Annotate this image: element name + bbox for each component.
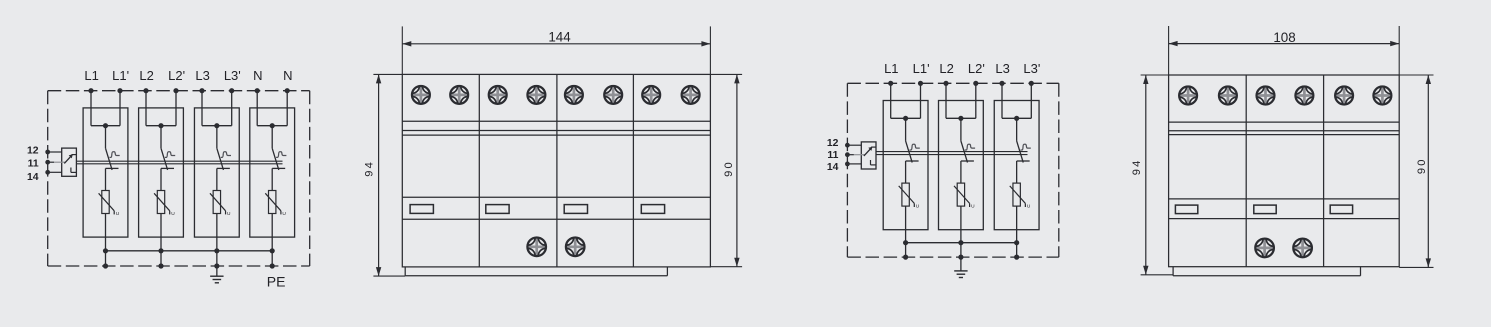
svg-text:L3: L3 <box>995 61 1009 76</box>
svg-text:11: 11 <box>28 158 39 169</box>
svg-text:108: 108 <box>1273 30 1295 45</box>
svg-text:4: 4 <box>364 162 376 168</box>
svg-text:9: 9 <box>723 171 735 177</box>
svg-text:L2: L2 <box>939 61 953 76</box>
svg-text:L3': L3' <box>224 68 241 83</box>
svg-text:L2': L2' <box>968 61 985 76</box>
svg-text:9: 9 <box>1416 168 1428 174</box>
svg-text:12: 12 <box>27 146 39 157</box>
svg-text:U: U <box>171 211 175 217</box>
svg-text:L2': L2' <box>168 68 185 83</box>
svg-text:PE: PE <box>267 273 286 289</box>
svg-text:L2: L2 <box>139 68 153 83</box>
svg-text:L1: L1 <box>884 61 898 76</box>
svg-text:12: 12 <box>827 138 839 149</box>
svg-text:14: 14 <box>27 172 39 183</box>
svg-text:L3': L3' <box>1023 61 1040 76</box>
svg-text:4: 4 <box>1131 161 1143 167</box>
svg-text:L3: L3 <box>195 68 209 83</box>
svg-text:9: 9 <box>1131 169 1143 175</box>
svg-text:0: 0 <box>1416 160 1428 166</box>
svg-text:9: 9 <box>364 171 376 177</box>
svg-text:U: U <box>971 204 975 210</box>
svg-text:U: U <box>116 211 120 217</box>
svg-text:L1: L1 <box>84 68 98 83</box>
svg-text:U: U <box>282 211 286 217</box>
svg-text:144: 144 <box>548 30 571 45</box>
svg-text:N: N <box>253 68 262 83</box>
svg-text:0: 0 <box>723 162 735 168</box>
svg-text:L1': L1' <box>112 68 129 83</box>
svg-text:U: U <box>1027 204 1031 210</box>
svg-text:L1': L1' <box>913 61 930 76</box>
svg-text:11: 11 <box>827 150 838 161</box>
svg-text:N: N <box>283 68 292 83</box>
svg-text:14: 14 <box>827 162 839 173</box>
svg-text:U: U <box>916 204 920 210</box>
svg-text:U: U <box>227 211 231 217</box>
